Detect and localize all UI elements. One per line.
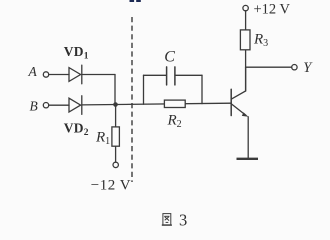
resistor R1 — [112, 127, 120, 146]
transistor emitter lead — [231, 104, 246, 116]
capacitor C — [167, 67, 175, 85]
wire main horizontal VD2 to transistor base — [82, 103, 231, 105]
node A terminal — [43, 72, 48, 77]
wire corner down to node — [114, 75, 116, 105]
transistor collector lead — [231, 67, 245, 99]
svg-text:−12 V: −12 V — [91, 177, 131, 193]
resistor R2 — [164, 100, 185, 107]
wire VD1 to corner — [82, 74, 115, 76]
terminal Y — [292, 65, 297, 70]
transistor Q1 base bar — [230, 89, 232, 115]
wire collector to Y — [246, 66, 292, 68]
wire to capacitor left plate — [144, 74, 167, 76]
wire capacitor right plate to right vertical — [175, 74, 202, 76]
svg-text:3: 3 — [179, 211, 187, 230]
wire B to VD2 — [49, 104, 69, 106]
wire cap branch right vertical — [201, 75, 203, 103]
wire junction down to R1 — [115, 105, 117, 163]
ground — [237, 158, 259, 160]
junction dot — [113, 102, 118, 107]
top edge artifact — [130, 0, 141, 2]
resistor R3 — [240, 30, 250, 50]
terminal +12V — [243, 5, 248, 10]
svg-text:B: B — [30, 99, 38, 114]
wire emitter down — [247, 117, 249, 158]
wire cap branch left vertical — [143, 75, 145, 104]
dashed separator line — [131, 17, 133, 182]
wire A to VD1 — [49, 74, 69, 76]
wire +12V down through R3 to collector — [245, 11, 247, 91]
svg-text:C: C — [164, 49, 175, 66]
caption glyph tu (figure) drawn manually — [162, 214, 172, 226]
diode VD2 — [69, 96, 82, 115]
node B terminal — [43, 103, 48, 108]
terminal -12V — [113, 162, 118, 167]
emitter arrowhead — [242, 112, 249, 116]
svg-text:A: A — [28, 64, 38, 79]
svg-text:+12 V: +12 V — [254, 2, 291, 18]
diode VD1 — [69, 65, 82, 84]
